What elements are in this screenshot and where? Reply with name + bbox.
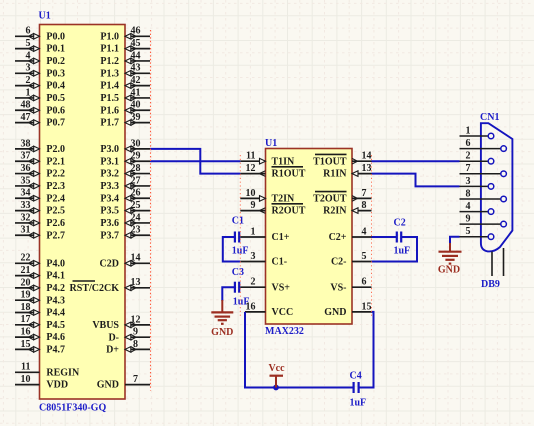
svg-text:13: 13 [362, 163, 372, 174]
svg-text:VS-: VS- [330, 282, 346, 293]
MAX232 pin 7 (T2OUT) [313, 188, 371, 205]
svg-text:P0.0: P0.0 [46, 31, 65, 42]
U1 pin 13 (RST/C2CK) [70, 277, 150, 294]
svg-text:P0.3: P0.3 [46, 68, 65, 79]
svg-text:39: 39 [131, 112, 141, 123]
svg-text:REGIN: REGIN [46, 367, 80, 378]
svg-text:12: 12 [246, 163, 256, 174]
IC U1 C8051F340-GQ body [40, 25, 126, 400]
CN1 pin 2 [460, 151, 494, 164]
svg-text:C2: C2 [394, 218, 406, 229]
svg-text:6: 6 [362, 277, 367, 288]
svg-text:36: 36 [21, 163, 31, 174]
svg-text:P1.3: P1.3 [100, 68, 119, 79]
svg-text:C2D: C2D [100, 258, 119, 269]
svg-text:GND: GND [438, 265, 460, 276]
svg-text:1: 1 [251, 226, 256, 237]
U1 pin 30 (P3.0) [100, 138, 150, 155]
CN1 pin 6 [460, 138, 507, 151]
svg-text:28: 28 [131, 163, 141, 174]
svg-text:P4.1: P4.1 [46, 271, 65, 282]
svg-text:24: 24 [131, 212, 141, 223]
svg-text:R1IN: R1IN [323, 169, 347, 180]
svg-text:P1.5: P1.5 [100, 93, 119, 104]
svg-text:41: 41 [131, 87, 141, 98]
svg-text:12: 12 [131, 314, 141, 325]
U1 pin 45 (P1.1) [100, 38, 150, 55]
MAX232 pin 14 (T1OUT) [313, 151, 371, 168]
U1 pin 18 (P4.4) [15, 302, 65, 319]
svg-text:P2.4: P2.4 [46, 193, 65, 204]
svg-text:9: 9 [251, 200, 256, 211]
svg-text:P3.6: P3.6 [100, 218, 119, 229]
svg-text:P0.4: P0.4 [46, 81, 65, 92]
svg-text:P4.0: P4.0 [46, 258, 65, 269]
svg-text:23: 23 [131, 225, 141, 236]
capacitor C4 plates [353, 382, 355, 393]
U1 pin 8 (D+) [106, 339, 150, 356]
wire C2+ to C2 [372, 236, 397, 238]
svg-text:C3: C3 [232, 267, 244, 278]
svg-text:R1OUT: R1OUT [272, 169, 306, 180]
U1 pin 6 (P0.0) [15, 26, 65, 43]
wire T1OUT to CN1 pin 2 [372, 160, 460, 162]
svg-text:VDD: VDD [46, 380, 68, 391]
svg-text:P0.7: P0.7 [46, 118, 65, 129]
svg-text:43: 43 [131, 63, 141, 74]
svg-text:U1: U1 [39, 11, 51, 22]
svg-text:38: 38 [21, 138, 31, 149]
connector CN1 DB9 body [481, 123, 513, 251]
wire C2 loop to C2- [372, 237, 418, 262]
svg-text:P0.5: P0.5 [46, 93, 65, 104]
svg-text:P4.3: P4.3 [46, 295, 65, 306]
svg-text:GND: GND [211, 327, 233, 338]
U1 pin 10 (VDD) [15, 374, 68, 391]
svg-text:P0.1: P0.1 [46, 44, 65, 55]
U1 pin 48 (P0.6) [15, 100, 65, 117]
svg-text:MAX232: MAX232 [265, 326, 304, 337]
svg-text:15: 15 [21, 339, 31, 350]
U1 pin 11 (REGIN) [15, 362, 80, 379]
svg-text:P2.7: P2.7 [46, 230, 65, 241]
MAX232 pin 6 (VS-) [330, 277, 371, 294]
svg-text:C1+: C1+ [272, 232, 290, 243]
svg-text:VS+: VS+ [272, 282, 291, 293]
svg-text:11: 11 [246, 151, 255, 162]
svg-text:37: 37 [21, 151, 31, 162]
svg-text:CN1: CN1 [480, 112, 499, 123]
svg-text:P4.6: P4.6 [46, 332, 65, 343]
U1 pin 46 (P1.0) [100, 26, 150, 43]
U1 pin 4 (P0.2) [15, 50, 65, 67]
svg-text:P1.4: P1.4 [100, 81, 119, 92]
svg-text:26: 26 [131, 188, 141, 199]
svg-text:45: 45 [131, 38, 141, 49]
U1 pin 16 (P4.6) [15, 327, 65, 344]
U1 pin 5 (P0.1) [15, 38, 65, 55]
svg-text:10: 10 [21, 374, 31, 385]
U1 pin 1 (P0.5) [15, 87, 65, 104]
svg-text:RST/C2CK: RST/C2CK [70, 283, 120, 294]
svg-text:P4.2: P4.2 [46, 283, 65, 294]
U1 pin 22 (P4.0) [15, 253, 65, 270]
svg-text:P0.6: P0.6 [46, 105, 65, 116]
svg-text:10: 10 [246, 188, 256, 199]
svg-text:P4.7: P4.7 [46, 345, 65, 356]
wire C4 to GND pin15 [359, 312, 374, 388]
U1 pin 37 (P2.1) [15, 151, 65, 168]
svg-text:C8051F340-GQ: C8051F340-GQ [39, 403, 106, 414]
svg-text:GND: GND [97, 380, 119, 391]
svg-text:4: 4 [466, 201, 471, 212]
svg-text:C4: C4 [350, 371, 362, 382]
U1 pin 36 (P2.2) [15, 163, 65, 180]
U1 pin 38 (P2.0) [15, 138, 65, 155]
MAX232 pin 1 (C1+) [240, 226, 289, 243]
U1 pin 20 (P4.2) [15, 277, 65, 294]
svg-text:14: 14 [131, 253, 141, 264]
capacitor C1 plates [234, 232, 236, 243]
svg-text:P2.0: P2.0 [46, 144, 65, 155]
svg-text:40: 40 [131, 100, 141, 111]
svg-text:P0.2: P0.2 [46, 56, 65, 67]
U1 pin 26 (P3.4) [100, 188, 150, 205]
svg-text:31: 31 [21, 225, 31, 236]
svg-text:P2.1: P2.1 [46, 156, 65, 167]
svg-text:C2+: C2+ [329, 232, 347, 243]
CN1 mounting stub left [491, 252, 493, 276]
svg-text:P2.5: P2.5 [46, 206, 65, 217]
svg-text:R2OUT: R2OUT [272, 206, 306, 217]
svg-text:C2-: C2- [331, 257, 347, 268]
svg-text:P3.1: P3.1 [100, 156, 119, 167]
U1 pin 14 (C2D) [100, 253, 150, 270]
svg-text:VCC: VCC [272, 307, 294, 318]
U1 pin 2 (P0.4) [15, 75, 65, 92]
U1 pin 17 (P4.5) [15, 314, 65, 331]
MAX232 pin 12 (R1OUT) [240, 163, 305, 180]
svg-text:P1.0: P1.0 [100, 31, 119, 42]
svg-text:P1.6: P1.6 [100, 105, 119, 116]
wire CN1 pin5 to ground [450, 237, 460, 244]
U1 pin 41 (P1.5) [100, 87, 150, 104]
CN1 pin 1 [460, 125, 494, 138]
svg-text:C1-: C1- [272, 257, 288, 268]
MAX232 pin 3 (C1-) [240, 251, 287, 268]
U1 pin 31 (P2.7) [15, 225, 65, 242]
svg-text:48: 48 [21, 100, 31, 111]
U1 pin 29 (P3.1) [100, 151, 150, 168]
svg-text:33: 33 [21, 200, 31, 211]
U1 pin 39 (P1.7) [100, 112, 150, 129]
U1 pin 9 (D-) [108, 327, 150, 344]
U1 pin 23 (P3.7) [100, 225, 150, 242]
U1 pin 21 (P4.1) [15, 265, 65, 282]
svg-text:P1.7: P1.7 [100, 118, 119, 129]
ground symbol at CN1 pin 5 [438, 243, 462, 276]
U1 pin 27 (P3.3) [100, 175, 150, 192]
svg-text:21: 21 [21, 265, 31, 276]
svg-text:7: 7 [466, 163, 471, 174]
CN1 mounting stub right [503, 248, 505, 276]
CN1 pin 7 [460, 163, 507, 176]
svg-text:DB9: DB9 [481, 279, 500, 290]
svg-text:C1: C1 [232, 216, 244, 227]
svg-text:25: 25 [131, 200, 141, 211]
IC U1 MAX232 body [266, 149, 353, 325]
svg-text:18: 18 [21, 302, 31, 313]
svg-text:4: 4 [362, 226, 367, 237]
MAX232 pin 15 (GND) [324, 301, 371, 318]
CN1 pin 5 [460, 226, 494, 239]
U1 pin 43 (P1.3) [100, 63, 150, 80]
U1 pin 12 (VBUS) [92, 314, 150, 331]
MAX232 pin 13 (R1IN) [323, 163, 371, 180]
MAX232 pin 8 (R2IN) [323, 200, 371, 217]
no-connect dotted marker at MAX232 right pins [371, 155, 373, 318]
svg-text:34: 34 [21, 188, 31, 199]
svg-text:30: 30 [131, 138, 141, 149]
svg-text:1uF: 1uF [394, 246, 411, 257]
svg-text:9: 9 [466, 214, 471, 225]
svg-text:T1IN: T1IN [272, 156, 296, 167]
CN1 pin 9 [460, 214, 507, 227]
wire P3.1 to T1IN [150, 160, 240, 162]
U1 pin 19 (P4.3) [15, 290, 65, 307]
wire R1IN to CN1 pin 3 [372, 174, 460, 187]
svg-text:8: 8 [362, 200, 367, 211]
power symbol Vcc [268, 363, 285, 388]
svg-text:P4.5: P4.5 [46, 320, 65, 331]
svg-text:T2IN: T2IN [272, 194, 296, 205]
svg-text:42: 42 [131, 75, 141, 86]
svg-text:1: 1 [466, 125, 471, 136]
svg-text:15: 15 [362, 301, 372, 312]
svg-text:16: 16 [21, 327, 31, 338]
svg-text:P1.2: P1.2 [100, 56, 119, 67]
CN1 pin 3 [460, 176, 494, 189]
CN1 pin 4 [460, 201, 494, 214]
junction dot at Vcc tap [273, 385, 279, 391]
MAX232 pin 16 (VCC) [245, 301, 293, 318]
svg-text:47: 47 [21, 112, 31, 123]
svg-text:P2.3: P2.3 [46, 181, 65, 192]
U1 pin 7 (GND) [97, 374, 150, 391]
svg-text:46: 46 [131, 26, 141, 37]
svg-text:13: 13 [131, 277, 141, 288]
svg-text:1uF: 1uF [233, 296, 250, 307]
svg-text:1uF: 1uF [350, 398, 367, 409]
svg-text:3: 3 [466, 176, 471, 187]
svg-text:T2OUT: T2OUT [313, 194, 347, 205]
capacitor C3 plates [234, 282, 236, 293]
U1 pin 44 (P1.2) [100, 50, 150, 67]
svg-text:29: 29 [131, 151, 141, 162]
svg-text:14: 14 [362, 151, 372, 162]
U1 pin 15 (P4.7) [15, 339, 65, 356]
U1 pin 42 (P1.4) [100, 75, 150, 92]
svg-text:P4.4: P4.4 [46, 308, 65, 319]
MAX232 pin 11 (T1IN) [240, 151, 295, 168]
MAX232 pin 9 (R2OUT) [240, 200, 305, 217]
wire P3.0 to R1OUT [150, 149, 240, 174]
svg-text:8: 8 [466, 188, 471, 199]
svg-text:2: 2 [251, 277, 256, 288]
svg-text:P1.1: P1.1 [100, 44, 119, 55]
wire VCC pin16 to bottom rail [245, 312, 354, 388]
MAX232 pin 10 (T2IN) [240, 188, 295, 205]
wire C3 to ground [222, 287, 235, 301]
svg-text:P3.5: P3.5 [100, 206, 119, 217]
svg-text:35: 35 [21, 175, 31, 186]
svg-text:P3.2: P3.2 [100, 169, 119, 180]
CN1 pin 8 [460, 188, 507, 201]
svg-text:20: 20 [21, 277, 31, 288]
svg-text:7: 7 [133, 374, 138, 385]
svg-text:5: 5 [362, 251, 367, 262]
svg-text:D+: D+ [106, 345, 119, 356]
U1 pin 33 (P2.5) [15, 200, 65, 217]
svg-text:11: 11 [21, 362, 30, 373]
svg-text:3: 3 [251, 251, 256, 262]
svg-text:U1: U1 [265, 138, 277, 149]
svg-text:T1OUT: T1OUT [313, 156, 347, 167]
svg-text:44: 44 [131, 50, 141, 61]
svg-text:P3.7: P3.7 [100, 230, 119, 241]
svg-text:P3.0: P3.0 [100, 144, 119, 155]
U1 pin 47 (P0.7) [15, 112, 65, 129]
svg-text:D-: D- [108, 332, 119, 343]
svg-text:Vcc: Vcc [268, 363, 285, 374]
U1 pin 40 (P1.6) [100, 100, 150, 117]
svg-text:R2IN: R2IN [323, 206, 347, 217]
U1 pin 25 (P3.5) [100, 200, 150, 217]
svg-text:17: 17 [21, 314, 31, 325]
capacitor C2 plates [396, 232, 398, 243]
svg-text:27: 27 [131, 175, 141, 186]
svg-text:P3.3: P3.3 [100, 181, 119, 192]
U1 pin 34 (P2.4) [15, 188, 65, 205]
ground symbol at C3 [211, 300, 233, 338]
svg-text:32: 32 [21, 212, 31, 223]
svg-text:P2.2: P2.2 [46, 169, 65, 180]
MAX232 pin 5 (C2-) [331, 251, 372, 268]
svg-text:22: 22 [21, 253, 31, 264]
no-connect dotted marker at MAX232 left pins [239, 155, 241, 318]
svg-text:19: 19 [21, 290, 31, 301]
svg-text:P2.6: P2.6 [46, 218, 65, 229]
svg-text:2: 2 [466, 151, 471, 162]
MAX232 pin 2 (VS+) [240, 277, 290, 294]
wire C1 loop to C1- [223, 237, 241, 262]
U1 pin 28 (P3.2) [100, 163, 150, 180]
svg-text:GND: GND [324, 307, 346, 318]
U1 pin 3 (P0.3) [15, 63, 65, 80]
svg-text:7: 7 [362, 188, 367, 199]
MAX232 pin 4 (C2+) [329, 226, 372, 243]
U1 pin 35 (P2.3) [15, 175, 65, 192]
no-connect dotted marker at U1 right pins [150, 30, 152, 391]
svg-text:5: 5 [466, 226, 471, 237]
svg-text:VBUS: VBUS [92, 320, 119, 331]
U1 pin 32 (P2.6) [15, 212, 65, 229]
svg-text:6: 6 [466, 138, 471, 149]
svg-text:P3.4: P3.4 [100, 193, 119, 204]
U1 pin 24 (P3.6) [100, 212, 150, 229]
